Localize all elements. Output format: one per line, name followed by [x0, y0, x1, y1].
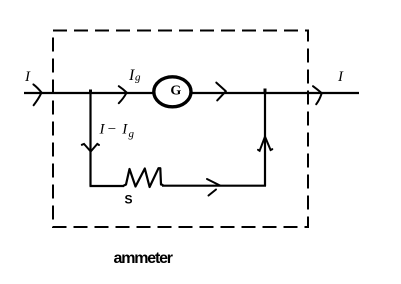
- current arrow on shunt branch: [207, 179, 220, 196]
- current arrow Ig (before galvanometer): [119, 86, 127, 103]
- svg-text:S: S: [125, 193, 133, 207]
- resistor S (shunt zigzag): [124, 168, 163, 187]
- current arrow I exiting (right): [313, 86, 322, 104]
- svg-text:g: g: [129, 128, 135, 140]
- svg-text:g: g: [135, 72, 141, 84]
- wire: main horizontal line: [24, 92, 359, 94]
- galvanometer U1 (circle G): [154, 77, 191, 107]
- svg-text:I: I: [337, 69, 344, 85]
- wire: bottom shunt branch right segment: [162, 185, 266, 187]
- svg-text:I: I: [128, 67, 135, 84]
- current arrow up on right branch: [258, 137, 272, 151]
- svg-text:I: I: [24, 69, 31, 85]
- node: right junction: [264, 89, 267, 94]
- wire: left branch vertical: [89, 93, 91, 186]
- svg-text:G: G: [170, 84, 181, 99]
- current arrow down on left branch: [82, 144, 99, 152]
- current arrow after galvanometer: [216, 83, 226, 101]
- wire: bottom shunt branch left segment: [90, 185, 125, 187]
- current arrow I entering (left): [33, 84, 41, 105]
- ammeter boundary dashed box: [53, 31, 308, 228]
- node: left junction: [89, 90, 92, 94]
- svg-text:−: −: [108, 121, 116, 137]
- svg-text:ammeter: ammeter: [114, 250, 173, 267]
- svg-text:I: I: [99, 121, 106, 137]
- wire: right branch vertical: [264, 93, 266, 186]
- svg-text:I: I: [121, 121, 128, 137]
